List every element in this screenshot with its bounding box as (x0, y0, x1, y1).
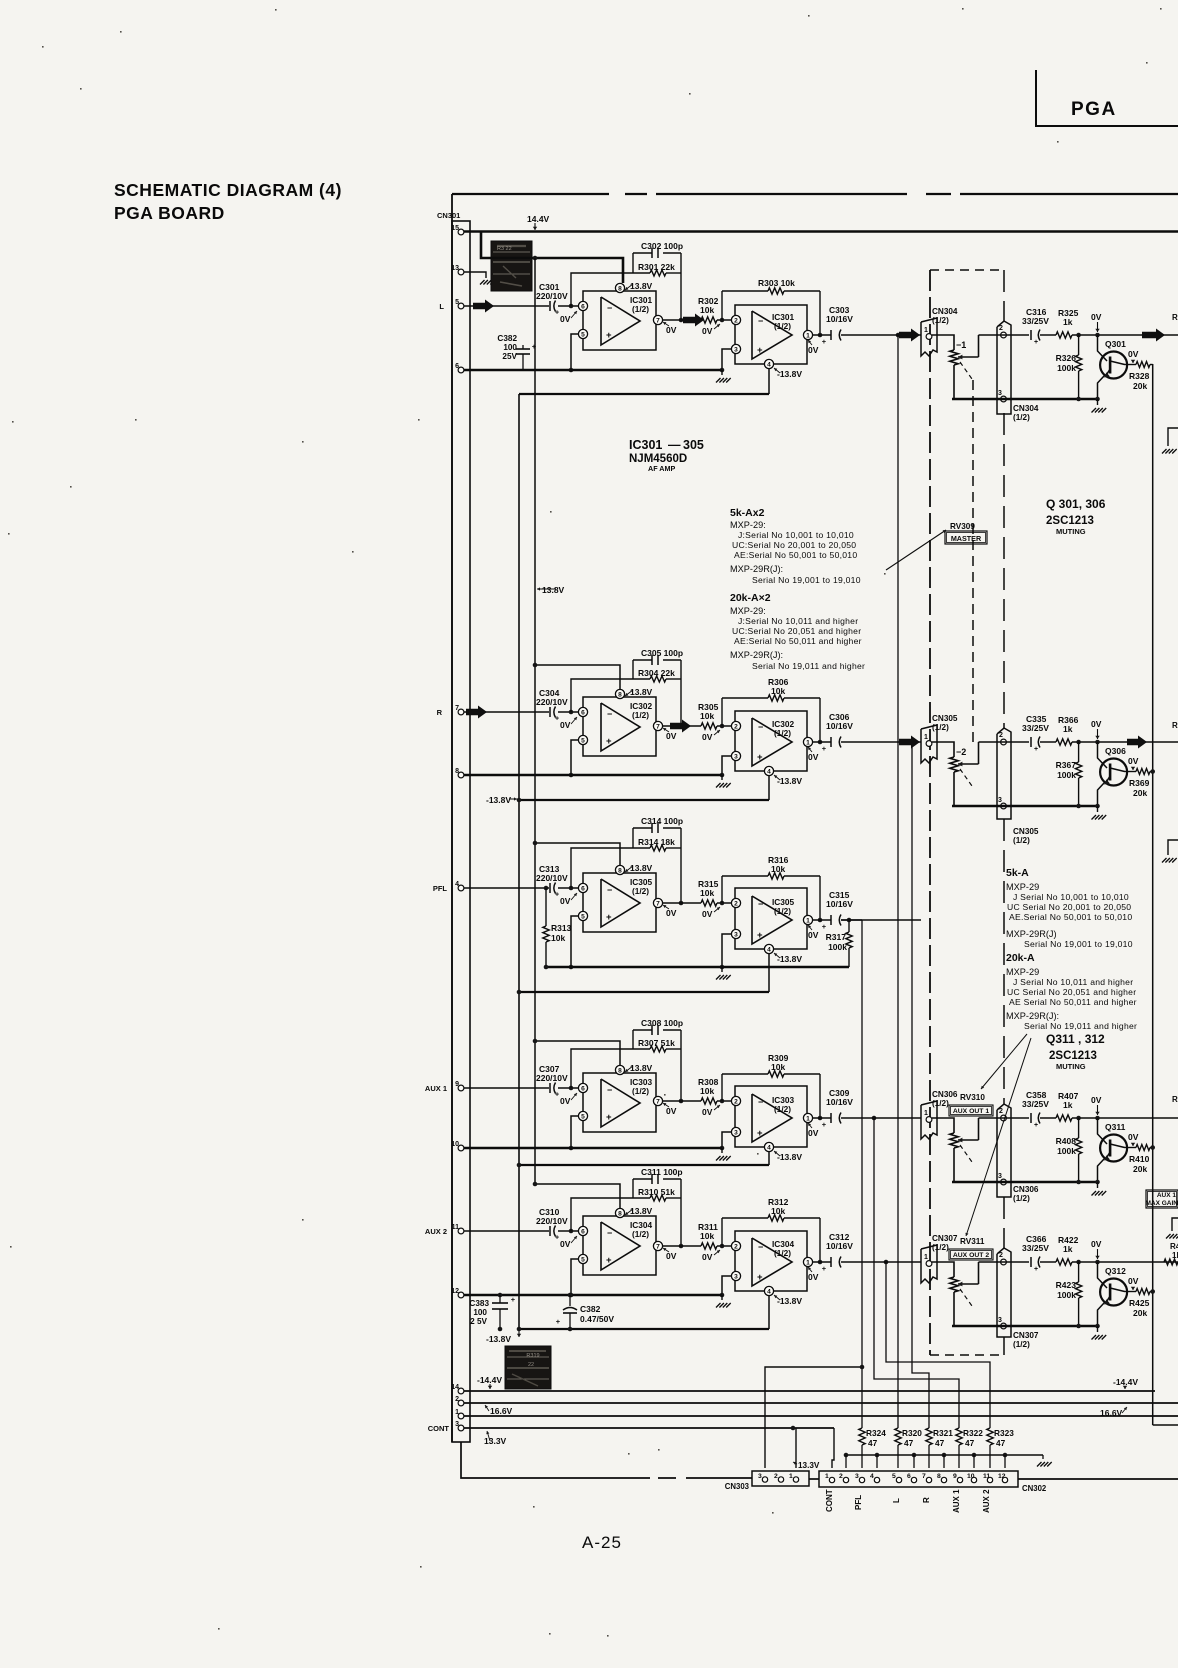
svg-text:3: 3 (734, 1129, 738, 1136)
svg-text:8: 8 (618, 867, 622, 874)
wire -13.8V feedback row stage 5 (519, 1328, 769, 1330)
svg-text:0V: 0V (1091, 312, 1102, 322)
wire 13.8V bus to pin 8 stage 2 (535, 665, 620, 689)
svg-text:3: 3 (855, 1473, 859, 1480)
svg-text:+: + (556, 1317, 561, 1326)
transistor Q301 2SC1213 muting (1098, 335, 1108, 361)
svg-text:6: 6 (581, 303, 585, 310)
resistor R324 47 (859, 1428, 865, 1445)
pin 7 circle stage 3 (653, 898, 662, 907)
svg-text:J:Serial No 10,011 and higher: J:Serial No 10,011 and higher (738, 616, 858, 626)
wire pin4 to -13.8V row stage 3 (768, 953, 770, 992)
svg-text:5k-A: 5k-A (1006, 867, 1029, 879)
ground below emitter (stage 1) (1097, 399, 1099, 405)
svg-text:PFL: PFL (433, 884, 448, 893)
wire feedback box right leg stage 1 (680, 253, 682, 320)
svg-text:2: 2 (734, 723, 738, 730)
svg-text:CN306: CN306 (1013, 1185, 1039, 1194)
svg-text:0V: 0V (702, 732, 713, 742)
dashed gang diagonal (stage 2) (960, 769, 972, 786)
svg-text:10/16V: 10/16V (826, 314, 853, 324)
pin 7 circle stage 1 (653, 315, 662, 324)
svg-text:20k: 20k (1133, 788, 1147, 798)
wire 13.8V bus to pin 8 stage 4 (535, 1041, 620, 1065)
wire emitter to ground row (stage 2) (1098, 783, 1105, 806)
op-amp IC302 (1/2) second half box stage 2 (735, 711, 807, 771)
svg-text:−: − (607, 709, 612, 719)
wire pin4 to -13.8V row stage 1 (768, 368, 770, 394)
resistor R407 1k (1056, 1115, 1072, 1121)
svg-text:3: 3 (998, 1173, 1002, 1180)
svg-text:220/10V: 220/10V (536, 1073, 568, 1083)
pin 1 circle stage 5 (803, 1257, 812, 1266)
svg-text:0V: 0V (666, 1251, 677, 1261)
svg-text:(1/2): (1/2) (932, 316, 949, 325)
junction feedback-output stage 3 (679, 901, 684, 906)
svg-text:7: 7 (922, 1473, 926, 1480)
wire output row to right stage 5 (841, 1261, 921, 1263)
junction R-feedback tap stage 3 (720, 901, 725, 906)
svg-text:+: + (555, 892, 559, 899)
wire pin7 to R305 stage 2 (663, 725, 701, 727)
svg-text:7: 7 (656, 900, 660, 907)
svg-text:0V: 0V (1128, 756, 1139, 766)
resistor R309 10k second feedback stage 4 (722, 1073, 768, 1075)
pin 5 circle stage 3 (578, 911, 587, 920)
resistor R323 47 (987, 1428, 993, 1445)
wire pot to bottom row (stage 1) (953, 365, 955, 399)
svg-text:R3 22: R3 22 (497, 246, 512, 252)
svg-text:3: 3 (734, 931, 738, 938)
svg-text:Serial No 19,001 to 19,010: Serial No 19,001 to 19,010 (1024, 939, 1133, 949)
op-amp IC303 (1/2) first half box stage 4 (583, 1073, 656, 1132)
svg-text:6: 6 (581, 885, 585, 892)
svg-text:PGA BOARD: PGA BOARD (114, 203, 225, 223)
svg-text:R: R (922, 1497, 931, 1503)
capacitor C312 10/16V output coupling stage 5 (830, 1257, 832, 1267)
pin 1 circle stage 3 (803, 915, 812, 924)
capacitor C309 10/16V output coupling stage 4 (830, 1113, 832, 1123)
svg-text:−: − (758, 899, 763, 909)
pin 6 circle stage 1 (578, 301, 587, 310)
wire R303 right leg stage 1 (819, 291, 821, 335)
CN305 pin 2 circle (1001, 739, 1007, 745)
svg-text:6: 6 (581, 709, 585, 716)
capacitor C316 33/25V (1030, 330, 1032, 340)
resistor R425 20k collector (1125, 1291, 1137, 1293)
svg-text:-13.8V: -13.8V (777, 369, 802, 379)
connector CN307 (1/2) pin 1 parallelogram (921, 1245, 937, 1283)
svg-text:+: + (822, 1120, 827, 1129)
wire feedback to input node stage 5 (571, 1198, 633, 1231)
svg-text:-13.8V: -13.8V (777, 954, 802, 964)
schematic border left edge (451, 194, 453, 1442)
svg-text:8: 8 (618, 691, 622, 698)
wire feedback to input node stage 4 (571, 1049, 633, 1088)
wire L signal drop to CN302 pin5 (896, 333, 901, 338)
svg-text:RV311: RV311 (960, 1237, 985, 1246)
svg-text:C314 100p: C314 100p (641, 816, 683, 826)
svg-text:3: 3 (734, 753, 738, 760)
wire bottom row CN305 pin3 (stage 2) (952, 805, 1098, 807)
wire pot to bottom row (stage 2) (953, 772, 955, 806)
svg-text:0.47/50V: 0.47/50V (580, 1314, 614, 1324)
wire pin5 to ground row stage 2 (571, 740, 578, 775)
svg-text:16.6V: 16.6V (490, 1406, 513, 1416)
capacitor C313 220/10V input coupling (549, 883, 551, 893)
junction even pin drop x=944 (942, 1453, 947, 1458)
callout box AUX 1 MAX GAIN (1146, 1190, 1178, 1208)
wire cap to pin6 node stage 3 (558, 887, 578, 889)
svg-text:1: 1 (825, 1473, 829, 1480)
wire cap to pin6 node stage 5 (558, 1230, 578, 1232)
svg-text:13.8V: 13.8V (630, 1063, 653, 1073)
svg-text:2SC1213: 2SC1213 (1049, 1050, 1097, 1062)
wire cap to R325 (1040, 334, 1056, 336)
CN306 pin 2 circle (1001, 1115, 1007, 1121)
svg-text:+: + (555, 716, 559, 723)
svg-text:8: 8 (618, 285, 622, 292)
svg-text:10/16V: 10/16V (826, 721, 853, 731)
svg-text:0V: 0V (1091, 1239, 1102, 1249)
svg-text:0V: 0V (808, 752, 819, 762)
svg-text:Q306: Q306 (1105, 746, 1126, 756)
pin 4 circle stage 5 (764, 1286, 773, 1295)
pin 6 circle stage 4 (578, 1083, 587, 1092)
svg-text:2: 2 (734, 1098, 738, 1105)
svg-text:(1/2): (1/2) (632, 886, 649, 896)
svg-text:13.8V: 13.8V (542, 585, 565, 595)
wire cap to pin6 node stage 4 (558, 1087, 578, 1089)
wire R316 left leg stage 3 (721, 876, 723, 903)
capacitor C306 10/16V output coupling stage 2 (830, 737, 832, 747)
resistor R322 47 (956, 1428, 962, 1445)
wire pin7 to R315 stage 3 (663, 902, 701, 904)
junction R369 to muting bus (1150, 769, 1155, 774)
wire pin1 to C303 stage 1 (813, 334, 831, 336)
CN305 pin 3 circle (1001, 803, 1007, 809)
svg-text:AE:Serial No 50,011 and highe: AE:Serial No 50,011 and higher (734, 636, 862, 646)
junction R410 to muting bus (1150, 1145, 1155, 1150)
svg-text:0V: 0V (808, 345, 819, 355)
svg-text:AUX 1: AUX 1 (952, 1489, 961, 1513)
svg-text:1: 1 (924, 734, 928, 741)
svg-text:AE Serial No 50,011 and highe: AE Serial No 50,011 and higher (1009, 997, 1137, 1007)
wire -13.8V feedback row stage 1 (519, 393, 769, 395)
svg-text:2: 2 (999, 1252, 1003, 1259)
op-amp triangle first half stage 3 (601, 879, 640, 927)
CN304 pin 3 circle (1001, 396, 1007, 402)
wire R312 right leg stage 5 (819, 1218, 821, 1262)
pin 1 circle stage 2 (803, 737, 812, 746)
wire pin7 to R308 stage 4 (663, 1100, 701, 1102)
ground below emitter (stage 5) (1097, 1326, 1099, 1332)
wire cap to R407 (1040, 1117, 1056, 1119)
svg-text:CN305: CN305 (1013, 827, 1039, 836)
svg-text:7: 7 (656, 1243, 660, 1250)
svg-text:47: 47 (965, 1438, 975, 1448)
wire AUX1 signal drop to CN302 pin9 (872, 1116, 877, 1121)
resistor R306 10k second feedback stage 2 (722, 697, 768, 699)
wire CN307 pin1 to volume pot (932, 1262, 954, 1277)
CN306 pin 3 circle (1001, 1179, 1007, 1185)
svg-text:J Serial No 10,011 and higher: J Serial No 10,011 and higher (1013, 977, 1133, 987)
wire R306 right leg stage 2 (819, 698, 821, 742)
capacitor C302 feedback 100p stage 1 (633, 252, 652, 254)
svg-text:J Serial No 10,001 to 10,010: J Serial No 10,001 to 10,010 (1013, 892, 1129, 902)
wire CN303 pin3 to PFL net (765, 1367, 862, 1468)
wire R315 to pin 2 stage 3 (717, 902, 731, 904)
connector CN302 box (819, 1471, 1018, 1487)
svg-text:MUTING: MUTING (1056, 1062, 1086, 1071)
svg-text:0V: 0V (560, 896, 571, 906)
junction R-feedback tap stage 5 (720, 1244, 725, 1249)
pin 4 circle stage 4 (764, 1142, 773, 1151)
svg-text:—: — (668, 438, 681, 452)
wire emitter to ground row (stage 1) (1098, 376, 1105, 399)
resistor R311 10k stage 5 (701, 1243, 717, 1249)
svg-text:AUX OUT 2: AUX OUT 2 (953, 1252, 989, 1259)
svg-text:+: + (757, 752, 763, 763)
svg-text:1k: 1k (1063, 1244, 1073, 1254)
pin 4 circle stage 2 (764, 766, 773, 775)
resistor R315 10k stage 3 (701, 900, 717, 906)
svg-text:7: 7 (656, 723, 660, 730)
svg-text:C305 100p: C305 100p (641, 648, 683, 658)
pot wiper arrow (stage 5) (978, 1262, 980, 1284)
svg-text:AUX 2: AUX 2 (425, 1227, 447, 1236)
resistor R308 10k stage 4 (701, 1098, 717, 1104)
junction shunt resistor top (stage 1) (1076, 333, 1081, 338)
svg-text:R313: R313 (551, 923, 572, 933)
svg-text:−: − (758, 1242, 763, 1252)
pin 5 circle stage 1 (578, 329, 587, 338)
svg-text:CN306: CN306 (932, 1090, 958, 1099)
pin 3 circle stage 4 (731, 1127, 740, 1136)
resistor R313 10k at PFL input (544, 886, 549, 891)
svg-text:2: 2 (999, 1108, 1003, 1115)
svg-text:10k: 10k (771, 686, 785, 696)
junction output node stage 4 (818, 1116, 823, 1121)
capacitor C382 100/25V (522, 345, 524, 349)
svg-text:+: + (532, 342, 537, 351)
svg-text:AUX 1: AUX 1 (1157, 1192, 1177, 1199)
vertical muting bus wire right side (1152, 364, 1154, 1425)
svg-text:20k: 20k (1133, 1164, 1147, 1174)
svg-text:AUX 2: AUX 2 (982, 1489, 991, 1513)
op-amp triangle first half stage 4 (601, 1079, 640, 1127)
wire 13.8V feed from rail to IC301 pin8 (thick) (481, 232, 623, 284)
junction base tap (stage 5) (1095, 1260, 1100, 1265)
capacitor C358 33/25V (1030, 1113, 1032, 1123)
wire -13.8V feedback row stage 2 (519, 799, 769, 801)
svg-text:CN302: CN302 (1022, 1484, 1047, 1493)
svg-text:100k: 100k (1057, 1290, 1076, 1300)
svg-text:CONT: CONT (428, 1424, 450, 1433)
pin 1 circle stage 1 (803, 330, 812, 339)
svg-text:0V: 0V (666, 731, 677, 741)
svg-text:(1/2): (1/2) (632, 1229, 649, 1239)
wire ground row stage 2 (464, 774, 722, 777)
ground at common row end (1042, 1455, 1044, 1459)
wire input from CN301 to C307 (stage 4) (464, 1087, 549, 1089)
svg-text:0V: 0V (1128, 1276, 1139, 1286)
wire pin5 to ground row stage 5 (571, 1259, 578, 1295)
svg-text:+: + (1034, 746, 1038, 753)
pot wiper arrow (stage 1) (978, 335, 980, 357)
wire cap to R366 (1040, 741, 1056, 743)
svg-text:R: R (1172, 313, 1178, 322)
op-amp IC302 (1/2) first half box stage 2 (583, 697, 656, 756)
svg-text:Serial No 19,001 to 19,010: Serial No 19,001 to 19,010 (752, 575, 861, 585)
wire pin3 to ground row stage 2 (722, 756, 731, 775)
svg-text:10k: 10k (771, 1062, 785, 1072)
resistor R321 47 (926, 1428, 932, 1445)
input signal arrow stage 1 (473, 300, 494, 313)
svg-text:13.8V: 13.8V (630, 1206, 653, 1216)
svg-text:1: 1 (806, 739, 810, 746)
svg-text:R301 22k: R301 22k (638, 262, 675, 272)
svg-text:R319: R319 (526, 1353, 539, 1359)
svg-text:+: + (555, 310, 559, 317)
svg-text:+: + (606, 1255, 612, 1266)
pin 8 circle stage 3 (615, 865, 624, 874)
wire CONT row (pin 3) (464, 1427, 834, 1429)
pin 7 circle stage 5 (653, 1241, 662, 1250)
junction feedback-output stage 4 (679, 1099, 684, 1104)
svg-text:0V: 0V (1128, 349, 1139, 359)
op-amp IC301 (1/2) second half box stage 1 (735, 305, 807, 364)
svg-text:UC:Serial No 20,001 to 20,050: UC:Serial No 20,001 to 20,050 (732, 540, 856, 550)
capacitor C382 0.47/50V bottom (568, 1293, 573, 1298)
svg-text:33/25V: 33/25V (1022, 1243, 1049, 1253)
svg-text:2: 2 (999, 325, 1003, 332)
svg-text:R369: R369 (1129, 778, 1150, 788)
svg-text:100k: 100k (1057, 770, 1076, 780)
svg-text:10k: 10k (700, 888, 714, 898)
junction even pin drop x=846 (844, 1453, 849, 1458)
annotation arrow to MASTER (886, 530, 946, 570)
wire pin7 to R302 stage 1 (663, 319, 701, 321)
pin 3 circle stage 1 (731, 344, 740, 353)
junction feedback-output stage 5 (679, 1244, 684, 1249)
resistor R369 20k collector (1125, 771, 1137, 773)
wire cap to R422 (1040, 1261, 1056, 1263)
ground at pin3 row stage 3 (721, 967, 723, 972)
pin 2 circle stage 4 (731, 1096, 740, 1105)
wire pin1 to C306 stage 2 (813, 741, 831, 743)
svg-text:6: 6 (907, 1473, 911, 1480)
transistor Q306 2SC1213 muting (1098, 742, 1108, 768)
svg-text:5: 5 (581, 1113, 585, 1120)
wire ground row stage 3 (544, 966, 849, 969)
ground at pin3 row stage 2 (721, 775, 723, 780)
wire feedback box right leg stage 5 (680, 1179, 682, 1246)
svg-text:−: − (758, 316, 763, 326)
wire 16.6V row (pin 2) (464, 1402, 1178, 1404)
svg-text:R320: R320 (902, 1428, 922, 1438)
svg-text:+: + (606, 912, 612, 923)
svg-text:R304 22k: R304 22k (638, 668, 675, 678)
resistor R305 10k stage 2 (701, 723, 717, 729)
wire pot to bottom row (stage 4) (953, 1148, 955, 1182)
wire PFL signal drop to CN302 pin3 (861, 920, 863, 1428)
connector CN301 body (452, 221, 470, 1442)
ground bracket right edge stage1 (1168, 428, 1178, 446)
svg-text:3: 3 (734, 1273, 738, 1280)
svg-text:R328: R328 (1129, 371, 1150, 381)
wire cap to pin6 node stage 1 (558, 305, 578, 307)
dashed gang diagonal (stage 4) (960, 1145, 972, 1162)
svg-text:8: 8 (618, 1210, 622, 1217)
svg-text:(1/2): (1/2) (1013, 1340, 1030, 1349)
resistor R367 100k shunt (1078, 742, 1080, 762)
junction R425 to muting bus (1150, 1289, 1155, 1294)
resistor R307 feedback stage 4 (633, 1048, 650, 1050)
svg-text:CN301: CN301 (437, 211, 460, 220)
svg-text:0V: 0V (1091, 719, 1102, 729)
svg-text:2: 2 (839, 1473, 843, 1480)
svg-text:2: 2 (734, 317, 738, 324)
pin 1 circle stage 4 (803, 1113, 812, 1122)
svg-text:5: 5 (581, 913, 585, 920)
svg-text:13.8V: 13.8V (630, 687, 653, 697)
svg-text:R321: R321 (933, 1428, 953, 1438)
pin 7 circle stage 2 (653, 721, 662, 730)
pin 4 circle stage 3 (764, 944, 773, 953)
wire pin3 to ground row stage 3 (722, 934, 731, 967)
wire -14.4V row (pin 14) (464, 1390, 1155, 1392)
svg-text:0V: 0V (808, 1128, 819, 1138)
wire link CN303 to CN302 (809, 1478, 819, 1480)
svg-text:Serial No 19,011 and higher: Serial No 19,011 and higher (752, 661, 865, 671)
svg-text:MXP-29:: MXP-29: (730, 606, 766, 616)
wire R422 to transistor node (1072, 1261, 1178, 1263)
svg-text:MUTING: MUTING (1056, 527, 1086, 536)
pin 2 circle stage 2 (731, 721, 740, 730)
scan blob component block bottom left (505, 1346, 551, 1389)
svg-text:20k-A×2: 20k-A×2 (730, 592, 771, 604)
svg-text:-13.8V: -13.8V (777, 1152, 802, 1162)
svg-text:16.6V: 16.6V (1100, 1408, 1123, 1418)
op-amp triangle second half stage 4 (752, 1094, 792, 1142)
svg-text:L: L (439, 302, 444, 311)
svg-text:C311 100p: C311 100p (641, 1167, 683, 1177)
svg-text:9: 9 (953, 1473, 957, 1480)
pin 3 circle stage 5 (731, 1271, 740, 1280)
wire 13.8V bus to pin 8 stage 3 (535, 843, 620, 865)
CN307 pin 2 circle (1001, 1259, 1007, 1265)
ground bracket right edge stage2 (1168, 840, 1178, 855)
junction shunt resistor top (stage 4) (1076, 1116, 1081, 1121)
annotation arrow to RV310 (981, 1034, 1027, 1089)
svg-text:R: R (1172, 1095, 1178, 1104)
resistor R317 100k at IC305 output (847, 918, 852, 923)
svg-text:220/10V: 220/10V (536, 873, 568, 883)
schematic border top edge (dashed sections) (452, 193, 609, 195)
svg-text:+: + (1034, 339, 1038, 346)
resistor R320 47 (895, 1428, 901, 1445)
svg-text:-13.8V: -13.8V (486, 1334, 511, 1344)
wire +13.8V vertical bus (534, 258, 536, 1184)
svg-text:CN303: CN303 (725, 1482, 750, 1491)
svg-text:1: 1 (789, 1473, 793, 1480)
svg-text:−: − (607, 1228, 612, 1238)
svg-text:R310 51k: R310 51k (638, 1187, 675, 1197)
svg-text:47: 47 (935, 1438, 945, 1448)
svg-text:CN305: CN305 (932, 714, 958, 723)
pin 6 circle stage 2 (578, 707, 587, 716)
